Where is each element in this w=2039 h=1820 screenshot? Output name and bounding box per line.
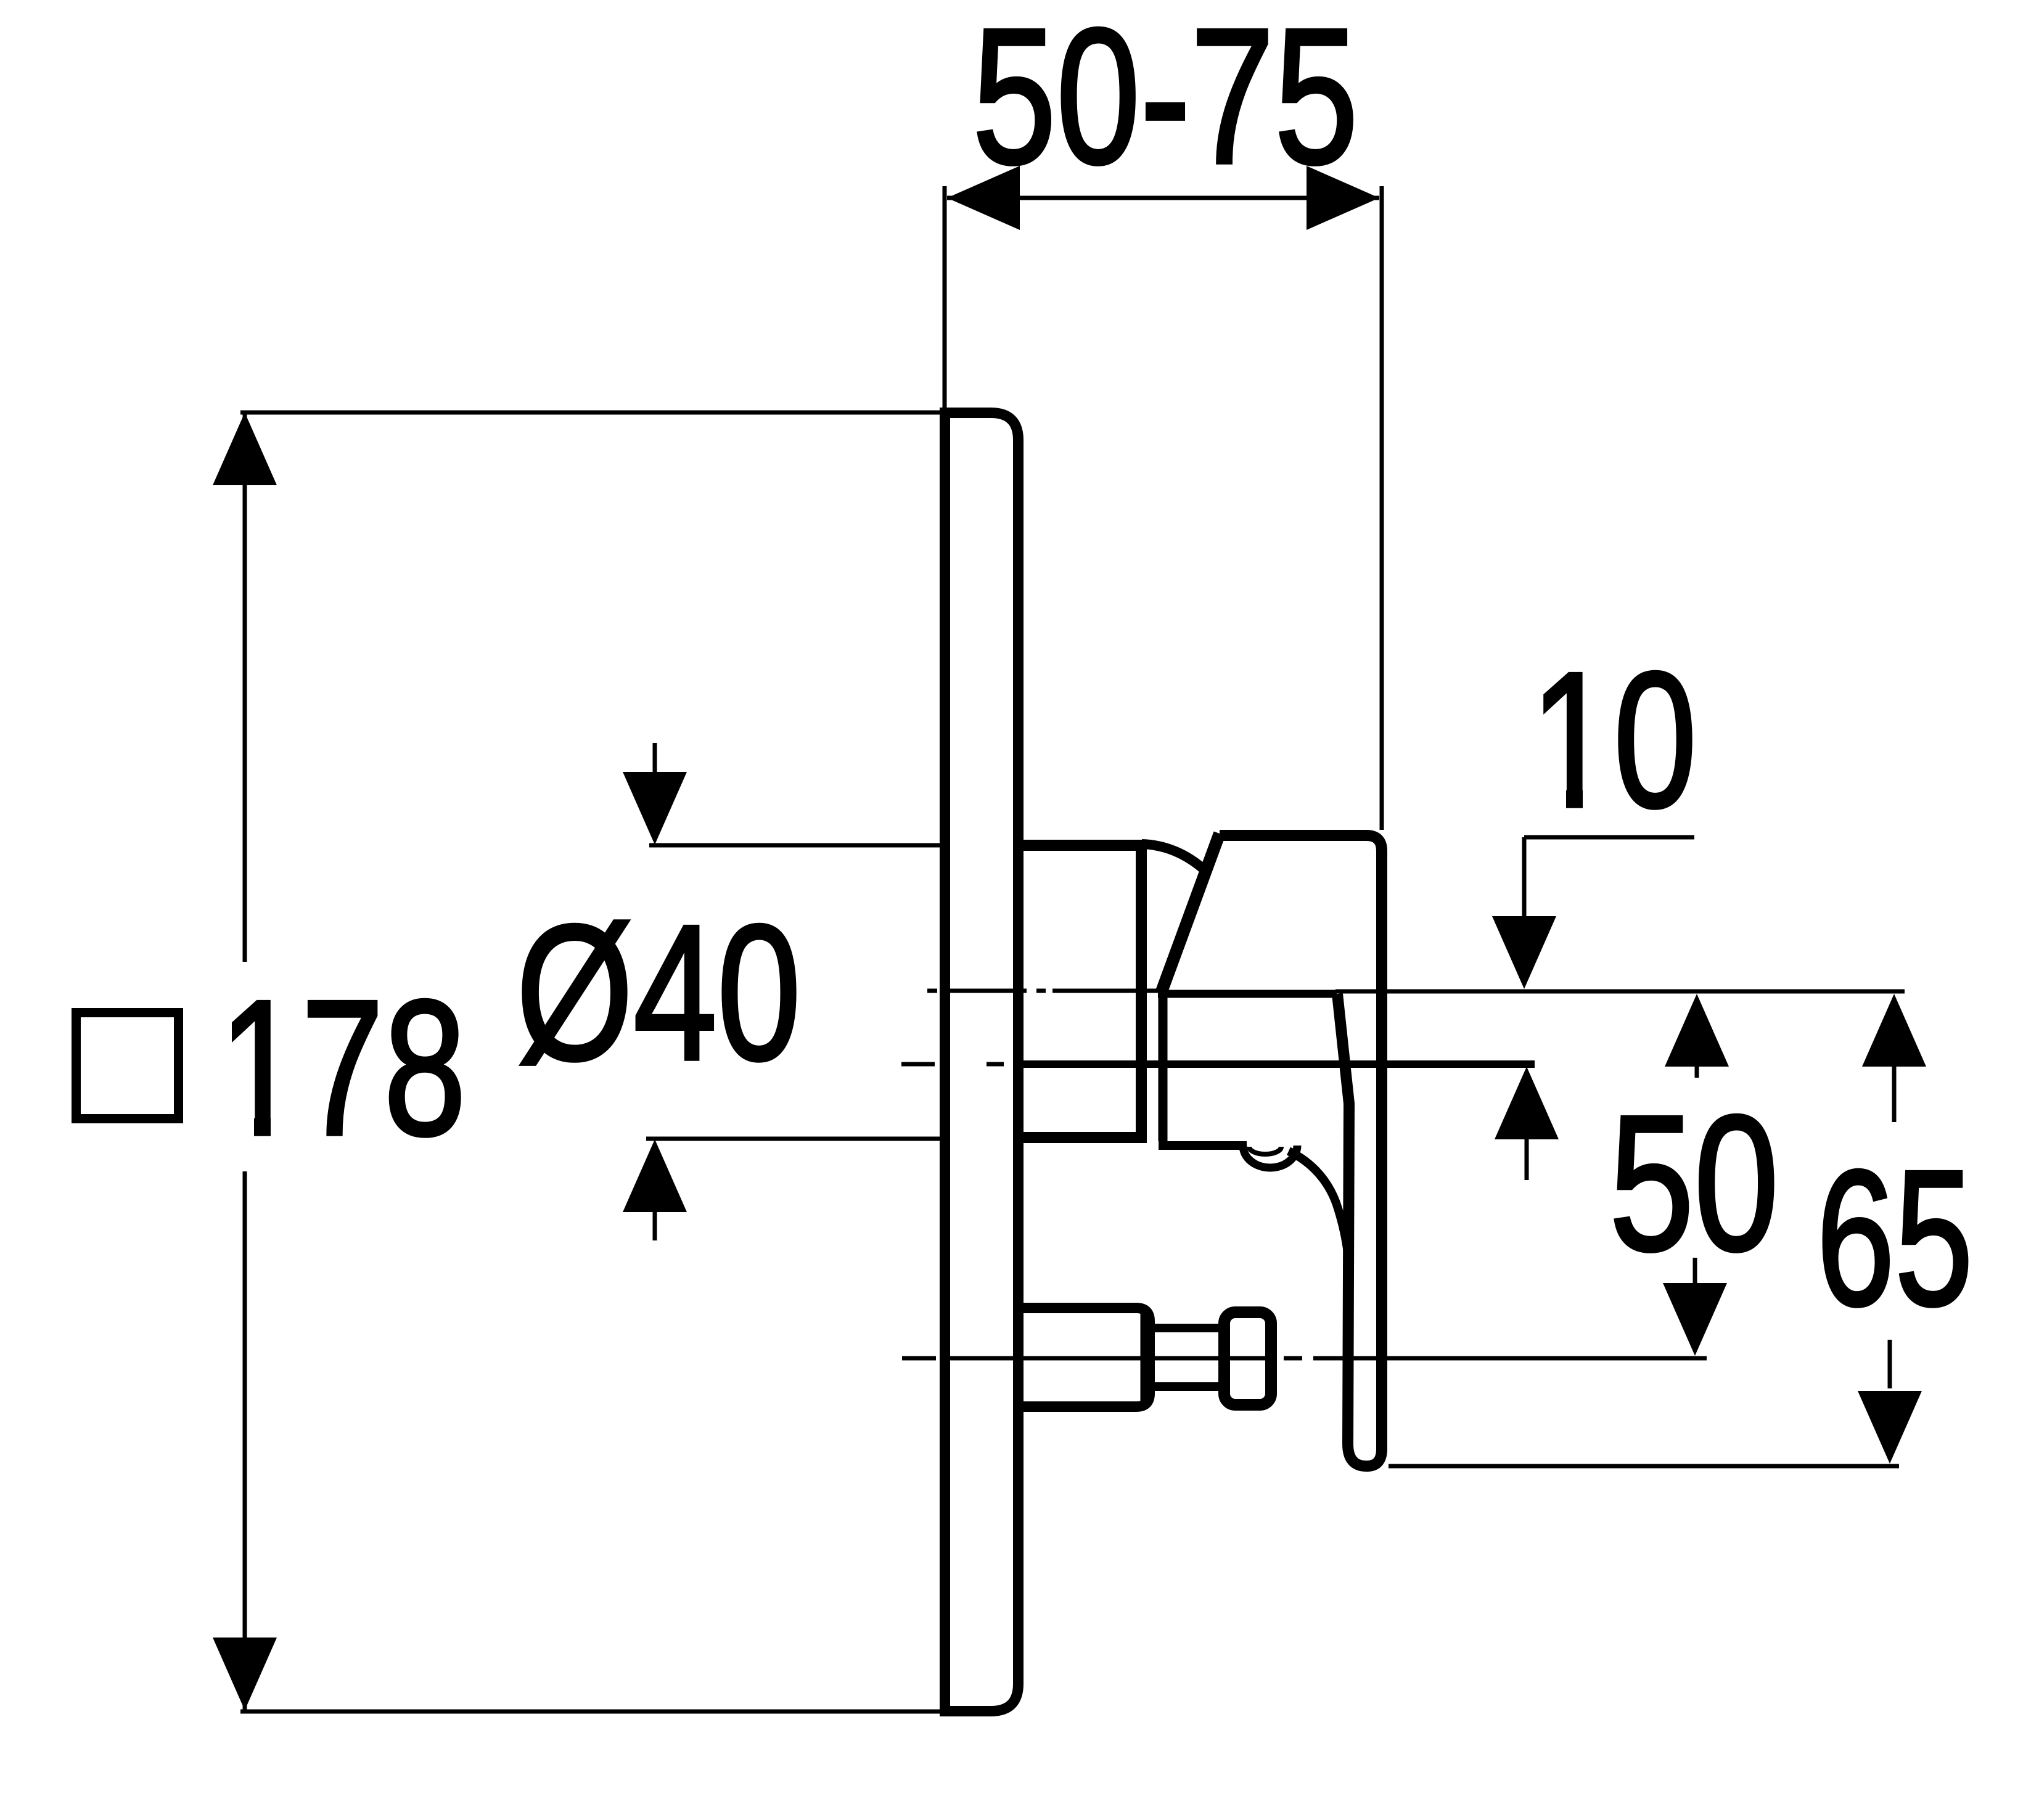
svg-text:178: 178 [219, 961, 466, 1176]
svg-text:Ø40: Ø40 [516, 885, 801, 1101]
svg-text:65: 65 [1816, 1131, 1973, 1346]
svg-text:50: 50 [1609, 1076, 1779, 1291]
svg-text:10: 10 [1530, 633, 1697, 848]
svg-text:50-75: 50-75 [972, 0, 1358, 204]
